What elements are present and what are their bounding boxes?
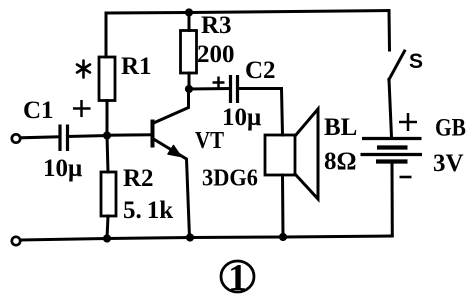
svg-text:3V: 3V bbox=[433, 150, 464, 177]
wire: R3 to collector node bbox=[188, 73, 191, 89]
wire: top rail down to R1 bbox=[105, 13, 108, 57]
resistor R3 bbox=[181, 31, 197, 74]
label + (C1 polarity) bbox=[73, 100, 91, 117]
switch S blade bbox=[389, 51, 405, 80]
resistor R2 bbox=[101, 172, 116, 216]
battery GB plate 3 (positive, long) bbox=[361, 153, 423, 156]
svg-text:1: 1 bbox=[228, 257, 247, 298]
svg-text:200: 200 bbox=[197, 41, 235, 68]
battery GB plate 2 (negative, short) bbox=[377, 145, 408, 149]
svg-text:8Ω: 8Ω bbox=[324, 148, 357, 175]
label + (C2 polarity) bbox=[213, 77, 225, 89]
speaker BL coil bbox=[265, 135, 295, 175]
svg-text:C2: C2 bbox=[245, 57, 276, 84]
wire: base node down to R2 bbox=[107, 136, 108, 173]
label * (R1 adjustable mark) bbox=[77, 61, 90, 78]
node: speaker bottom junction bbox=[279, 233, 287, 241]
capacitor C2 bbox=[231, 75, 238, 103]
svg-text:R3: R3 bbox=[201, 12, 232, 39]
wire: top rail down to switch bbox=[388, 11, 392, 51]
wire: collector node to C2 bbox=[189, 87, 230, 91]
input terminal (bottom) bbox=[12, 237, 20, 245]
svg-text:5. 1k: 5. 1k bbox=[123, 197, 173, 224]
input terminal (top) bbox=[12, 134, 20, 142]
svg-text:10μ: 10μ bbox=[43, 155, 82, 182]
svg-text:C1: C1 bbox=[23, 97, 54, 124]
wire: R1 to base node bbox=[106, 101, 109, 137]
svg-text:R1: R1 bbox=[121, 53, 152, 80]
node: base junction bbox=[103, 131, 111, 139]
wire: C1 to base node bbox=[68, 136, 108, 137]
wire: base node to transistor base bbox=[107, 133, 153, 136]
wire: top rail to R3 bbox=[188, 13, 191, 31]
label + (battery polarity) bbox=[399, 113, 417, 131]
svg-text:VT: VT bbox=[195, 128, 224, 154]
svg-text:BL: BL bbox=[324, 114, 357, 141]
svg-text:R2: R2 bbox=[123, 165, 154, 192]
svg-text:GB: GB bbox=[435, 115, 466, 142]
transistor VT emitter lead bbox=[154, 139, 190, 238]
wire: battery to bottom rail bbox=[389, 163, 392, 236]
battery GB plate 1 (positive, long) bbox=[362, 137, 422, 140]
svg-text:10μ: 10μ bbox=[222, 104, 261, 131]
node: emitter bottom junction bbox=[186, 233, 194, 241]
resistor R1 bbox=[99, 57, 115, 101]
wire: bottom ground rail bbox=[21, 236, 393, 240]
svg-text:S: S bbox=[409, 50, 423, 73]
transistor VT base bar bbox=[151, 120, 155, 148]
wire: speaker to bottom rail bbox=[281, 175, 285, 237]
figure number circle 1 bbox=[221, 261, 254, 292]
node: R2 bottom junction bbox=[103, 234, 111, 242]
label - (battery polarity) bbox=[400, 176, 412, 179]
battery GB plate 4 (negative, short) bbox=[376, 159, 408, 163]
wire: top supply rail bbox=[106, 11, 389, 14]
wire: switch to battery bbox=[389, 80, 392, 138]
node: collector junction bbox=[185, 85, 193, 93]
wire: R2 to bottom rail bbox=[107, 216, 108, 239]
wire: C2 to speaker bbox=[238, 89, 283, 136]
speaker BL horn bbox=[295, 109, 318, 199]
node: top rail / R3 junction bbox=[185, 8, 193, 16]
wire: input terminal to C1 bbox=[21, 137, 60, 138]
transistor VT collector lead bbox=[154, 89, 189, 123]
transistor VT emitter arrow bbox=[168, 146, 181, 157]
capacitor C1 bbox=[60, 125, 68, 152]
svg-text:3DG6: 3DG6 bbox=[202, 165, 258, 192]
